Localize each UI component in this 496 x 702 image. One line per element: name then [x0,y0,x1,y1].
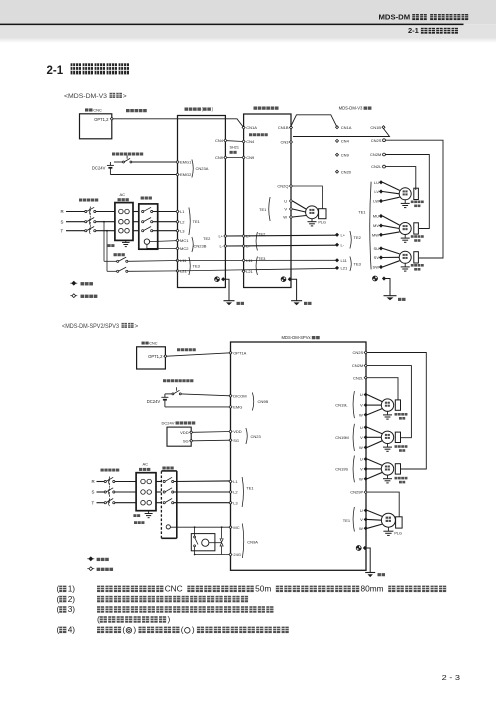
ground servo motor 3 [404,263,406,267]
svg-text:CN2M: CN2M [352,363,363,368]
pin EMG2 (power unit) [176,173,179,176]
label CNC (top) [85,108,88,111]
pin U CN19M (SPV unit) [364,426,367,429]
pin OPT1A (SPV unit) [229,351,232,354]
svg-text:AC: AC [120,192,126,197]
svg-text:MC: MC [233,525,239,530]
pin SG (SPV unit) [229,439,232,442]
wire MC1 [150,241,178,242]
svg-text:L+: L+ [246,234,251,239]
legend main circuit (bottom) [87,558,94,560]
contactor box MC (top) [139,204,158,249]
ground spindle motor [311,219,313,222]
wires to spindle motor (bottom) [367,510,382,516]
pin MC2 (power unit) [176,247,179,250]
reactor coils row (bottom) [141,500,146,505]
wire SH21 CN4-CN4 [227,140,244,143]
svg-text:CN4: CN4 [246,139,255,144]
pin V spindle (SPV unit) [364,518,367,521]
wire PE to ground (SPV unit) [366,548,370,572]
wire PE to ground (power unit) [225,279,229,300]
svg-text:MDS-DM: MDS-DM [379,13,411,22]
label ground under reactor (top) [108,244,111,247]
pin L3 (SPV unit) [229,501,232,504]
breaker linkage dashed (bottom) [109,477,111,504]
bracket TE3 (V3 unit) [350,257,351,272]
svg-text:CN23A: CN23A [196,166,209,171]
encoder box servo (bottom) 3 [395,464,400,474]
pin CN1A (spindle unit) [242,126,245,129]
AC reactor box (top) [115,203,133,241]
svg-text:U: U [360,392,363,397]
pin CN29P (SPV unit) [364,491,367,494]
bracket TE1 (SPV unit) [242,477,243,507]
label motor end detector 1 [411,201,414,204]
spindle drive unit box U2 [244,114,291,288]
encoder box servo 2 [414,223,419,234]
svg-text:TE1: TE1 [343,518,351,523]
svg-text:CNC: CNC [149,341,157,345]
svg-text:>: > [123,93,127,100]
svg-text:LV: LV [374,189,379,194]
PE terminal (power unit) [215,277,220,282]
wire contactor to power unit (top) [153,221,178,223]
wire L+ bus [227,234,337,237]
wire reactor to contactor (top) [133,211,139,213]
svg-text:(: ( [122,625,125,635]
svg-text:U: U [360,425,363,430]
bracket CN9B [252,393,253,411]
pin V (spindle unit) [290,208,293,211]
relay box (bottom) [191,534,215,551]
wire reactor to contactor (bottom) [156,491,161,493]
wire breaker to reactor R (bottom) [115,481,136,483]
svg-text:CN9A: CN9A [247,540,258,545]
svg-text:CN2L: CN2L [371,164,382,169]
svg-text:VDD: VDD [180,430,189,435]
pin LW (V3 unit) [380,200,383,203]
label optical cable (top) [126,109,130,112]
pin CN9 (spindle unit) [242,156,245,159]
svg-text:L11: L11 [246,258,253,263]
wire MC2 [147,244,178,248]
svg-text:L2: L2 [233,490,238,495]
wire CN2L to encoder 1 [385,167,415,190]
contactor contact row (top) [142,221,144,223]
wire EMG1 [132,161,178,163]
pin CN2S (V3 unit) [383,139,386,142]
wires to servo motor 3 (bottom) [367,459,382,465]
pin LV (V3 unit) [380,190,383,193]
wire reactor to contactor (top) [133,230,139,232]
pin CN2L (V3 unit) [383,165,386,168]
wire CN2M to encoder 2 (bottom) [367,366,411,438]
svg-text:LU: LU [374,180,379,185]
bracket TE2 (spindle unit) [256,232,257,251]
label ground (spindle unit) [304,302,307,305]
relay coil (bottom) [202,539,209,546]
contactor box (bottom) [161,470,176,472]
svg-text:CN29P: CN29P [350,490,363,495]
varistor branch from MC wire [221,527,223,538]
svg-text:W: W [359,526,363,531]
svg-text:DC24V: DC24V [162,420,175,425]
contactor contact row L3 (bottom) [163,502,165,504]
svg-text:PLG: PLG [394,531,402,535]
svg-text:OPT1,2: OPT1,2 [148,354,163,359]
servo motor (bottom) 3 [381,463,393,475]
wire contactor to L1 (SPV unit) [174,480,231,483]
contactor coil (bottom) [166,525,170,529]
svg-text:CN23: CN23 [251,434,262,439]
wire CN2M to encoder 2 [385,155,429,229]
label optical cable (bottom) [177,348,180,351]
svg-text:4): 4) [68,625,76,635]
svg-text:2-1: 2-1 [408,26,419,35]
wire contactor to L3 (SPV unit) [174,502,231,504]
svg-text:): ) [192,625,195,635]
wire L- bus [227,244,337,247]
encoder box servo (bottom) 1 [395,400,400,410]
pin CN2M (V3 unit) [383,153,386,156]
ground servo motor (bottom) 3 [387,475,389,479]
svg-text:EMG: EMG [233,405,242,410]
svg-text:L+: L+ [218,234,223,239]
bracket CN9A [242,524,243,559]
svg-text:CN9: CN9 [215,155,224,160]
pin MC1 (power unit) [176,239,179,242]
pin CN3 (spindle unit) [290,141,293,144]
svg-text:CN3: CN3 [280,140,289,145]
switch emergency stop (top) [114,161,123,163]
svg-text:S: S [61,219,64,224]
wires to servo motor 1 [383,182,400,190]
pin CN9 (power unit) [224,156,227,159]
pin MU (V3 unit) [380,215,383,218]
svg-text:TE1: TE1 [259,207,267,212]
svg-text:L3: L3 [180,228,185,233]
bracket TE1 (power unit) [189,208,190,236]
wire EMG (bottom) [165,406,231,408]
breaker contact R (bottom) [104,480,106,482]
wire SG [193,439,231,442]
wire V to spindle motor [293,209,306,212]
breaker contact R (top) [85,210,87,212]
svg-text:CN4: CN4 [341,139,350,144]
contactor contact row (top) [142,230,144,232]
PE terminal (spindle unit) [281,277,286,282]
label motor end detector 3 [411,264,414,267]
ground symbol (V3 unit) [384,295,397,297]
CNC box (top diagram) [80,114,112,139]
breaker linkage dashed (top) [89,207,91,232]
pin SU (V3 unit) [380,247,383,250]
svg-text:V: V [360,517,363,522]
breaker contact T (bottom) [104,502,106,504]
bracket TE2 (V3 unit) [350,231,351,249]
svg-text:CN9B: CN9B [258,399,269,404]
pin L- (power unit) [224,245,227,248]
svg-text:CN2S: CN2S [353,350,364,355]
label power supply unit [185,107,189,110]
svg-text:DICOM: DICOM [233,393,246,398]
bracket TE3 (spindle unit) [256,257,257,276]
svg-text:R: R [61,209,64,214]
servo motor (bottom) 1 [381,399,393,411]
svg-text:L3: L3 [233,500,238,505]
wire W to spindle motor [293,216,307,218]
svg-text:(: ( [57,594,60,604]
svg-text:2-1: 2-1 [47,65,64,77]
svg-text:MC1: MC1 [180,238,189,243]
breaker contact S (bottom) [104,491,106,493]
pin CN4 (V3 unit) [336,139,339,142]
wire DICOM [181,394,230,396]
pin L11 (spindle unit) [242,259,245,262]
PLG encoder box (spindle motor) [319,209,326,219]
svg-text:W: W [359,445,363,450]
reactor ground (bottom) [148,511,150,514]
pin L1 (SPV unit) [229,480,232,483]
svg-text:CN4: CN4 [215,138,224,143]
contactor contact row L2 (bottom) [163,491,165,493]
svg-text:CN2L: CN2L [353,375,364,380]
svg-text:W: W [359,412,363,417]
label motor end detector (bottom) 2 [395,445,398,448]
svg-text:DC24V: DC24V [147,399,161,404]
svg-text:SH21: SH21 [230,146,240,150]
svg-text:V: V [360,467,363,472]
label motor end detector (bottom) 1 [395,413,398,416]
svg-text:<MDS-DM-SPV2/SPV3: <MDS-DM-SPV2/SPV3 [62,323,119,330]
relay contact row1 (top) [104,260,117,262]
pin VDD out (psu) [190,431,193,434]
label ground (V3 unit) [398,298,401,301]
wire from CN1B (V3 unit) [293,129,390,137]
label motor end detector 2 [411,235,414,238]
pin L+ (spindle unit) [242,235,245,238]
pin CN2S (SPV unit) [364,351,367,354]
svg-text:L+: L+ [341,232,346,237]
svg-text:CN1A: CN1A [246,125,257,130]
wire U to spindle motor [293,201,307,209]
svg-text:T: T [92,500,95,505]
battery DC24V (top) [109,162,111,165]
svg-text:2 - 3: 2 - 3 [442,673,460,682]
svg-text:U: U [284,199,287,204]
servo motor M2 [399,188,411,200]
ground servo motor 1 [404,200,406,204]
pin L+ (V3 unit) [336,233,339,236]
header rule line [0,24,464,26]
svg-text:>: > [135,323,139,330]
switch emergency stop (bottom) [165,393,172,395]
ground symbol (SPV unit) [365,572,375,574]
svg-text:W: W [283,215,287,220]
bracket CN19M [353,424,354,451]
svg-text:): ) [168,614,171,624]
encoder box servo 3 [414,252,419,263]
label relay breaker (top) [114,253,117,256]
pin U CN19L (SPV unit) [364,393,367,396]
svg-text:): ) [133,625,136,635]
svg-text:CN20: CN20 [341,169,352,174]
pin CN4 (power unit) [224,139,227,142]
pin W spindle (SPV unit) [364,527,367,530]
pin L11 (power unit) [176,259,179,262]
svg-text:V: V [360,403,363,408]
svg-text:SV: SV [374,255,380,260]
svg-text:CN19S: CN19S [335,467,348,472]
svg-text:L21: L21 [341,266,348,271]
bracket TE3 (power unit) [189,257,190,275]
ground servo motor (bottom) 2 [387,444,389,448]
CNC box (bottom diagram) [137,347,166,369]
svg-text:CN2M: CN2M [370,152,381,157]
svg-text:MV: MV [373,223,379,228]
varistor symbol [220,539,223,542]
label external emergency stop input (bottom) [163,379,166,382]
wires to servo motor 2 [383,216,400,225]
wire reactor to contactor (bottom) [156,502,161,504]
wire L11 bus [179,259,337,261]
svg-text:TE3: TE3 [354,262,362,267]
svg-text:L21: L21 [246,269,253,274]
svg-text:DC24V: DC24V [92,165,106,170]
wires to servo motor 1 (bottom) [367,395,382,402]
wires to servo motor 3 [383,248,400,254]
bracket TE1 (V3 unit) [370,182,371,270]
svg-text:TE2: TE2 [258,231,266,236]
pin CN1B (V3 unit) [382,126,385,129]
svg-text:CN19L: CN19L [335,403,348,408]
svg-text:LW: LW [373,199,379,204]
battery DC24V (bottom) [164,394,166,397]
svg-text:50m: 50m [255,584,271,594]
svg-text:SG: SG [183,439,189,444]
svg-text:MU: MU [373,214,379,219]
wire VDD [193,431,231,434]
pin CN2Q (spindle unit) [290,185,293,188]
header fade [0,38,496,44]
svg-text:OPT1,2: OPT1,2 [94,117,109,122]
pin CN1A (V3 unit) [336,126,339,129]
wire CN2S to encoder 3 (bottom) [367,353,426,470]
legend main circuit (top) [70,282,77,284]
pin L+ (power unit) [224,235,227,238]
svg-text:OPT1A: OPT1A [233,350,246,355]
pin EMG1 (power unit) [176,161,179,164]
pin CN2L (SPV unit) [364,376,367,379]
reactor coils row (top) [119,219,124,224]
svg-text:EMG2: EMG2 [180,172,192,177]
svg-text:TE3: TE3 [258,256,266,261]
pin CN20 (V3 unit) [336,170,339,173]
bracket TE1 spindle (bottom) [353,507,354,532]
svg-text:(: ( [57,604,60,614]
contactor contact row (top) [142,210,144,212]
power supply unit box U1 [178,116,226,288]
stabilized power supply box [167,427,191,446]
contactor coil (top) [144,239,149,244]
label external emergency stop input [112,152,115,155]
svg-text:MDS-DM-V3: MDS-DM-V3 [339,106,363,111]
label ground (SPV unit) [378,573,381,576]
svg-text:T: T [61,228,64,233]
pin VDD (SPV unit) [229,430,232,433]
svg-text:SU: SU [373,246,379,251]
label circuit breaker (top) [79,198,82,201]
wire contactor to power unit (top) [153,211,178,213]
label CNC (bottom) [142,342,145,345]
reactor coils row (bottom) [141,479,146,484]
pin SG out (psu) [190,439,193,442]
pin L3 (power unit) [176,229,179,232]
pin LU (V3 unit) [380,181,383,184]
ground spindle motor (bottom) [387,527,389,531]
svg-text:MW: MW [372,232,379,237]
wire breaker to reactor R (top) [96,211,115,213]
wire optical cable to OPT1A [167,353,231,356]
wire 24G return [195,554,229,556]
pin L2 (power unit) [176,220,179,223]
bracket CN23B [192,237,193,252]
legend control circuit (top) [70,295,77,297]
svg-text:(: ( [97,614,100,624]
ground servo motor 2 [404,235,406,239]
svg-text:<MDS-DM-V3: <MDS-DM-V3 [64,93,107,100]
svg-text:CN9: CN9 [341,152,350,157]
pin OPT connector (bottom CNC) [164,355,167,358]
wire CN29P to PLG [367,492,399,517]
pin L21 (power unit) [176,269,179,272]
svg-text:CN1A: CN1A [341,125,352,130]
svg-text:L11: L11 [341,258,348,263]
wire breaker to reactor S (bottom) [115,491,136,493]
svg-text:V: V [360,435,363,440]
pin MW (V3 unit) [380,233,383,236]
pin W CN19L (SPV unit) [364,413,367,416]
wire PE to ground (V3 unit) [386,279,391,296]
pin L21 (V3 unit) [336,266,339,269]
wire contactor to power unit (top) [153,230,178,232]
wire breaker to reactor T (top) [96,230,115,232]
pin L11 (V3 unit) [336,259,339,262]
pin U (spindle unit) [290,200,293,203]
pin CN4 (spindle unit) [242,140,245,143]
breaker contact S (top) [85,221,87,223]
svg-text:CN23B: CN23B [194,243,207,248]
wire EMG2 [110,174,177,176]
label contactor (bottom) [162,466,165,469]
svg-text:L2: L2 [180,219,185,224]
svg-text:R: R [92,479,95,484]
pin L21 (spindle unit) [242,270,245,273]
wire breaker to reactor S (top) [96,221,115,223]
reactor coils row (top) [119,228,124,233]
spindle motor M1 [306,206,319,219]
svg-text:SW: SW [373,265,380,270]
ground servo motor (bottom) 1 [387,411,389,415]
svg-text:1): 1) [68,584,76,594]
svg-text:S: S [92,490,95,495]
wire coil to MC pin [170,526,229,528]
header gray band lower [0,24,496,37]
bracket CN23 (SPV) [246,428,247,444]
encoder box servo 1 [414,188,419,199]
pin CN2M (SPV unit) [364,364,367,367]
svg-text:(: ( [181,625,184,635]
